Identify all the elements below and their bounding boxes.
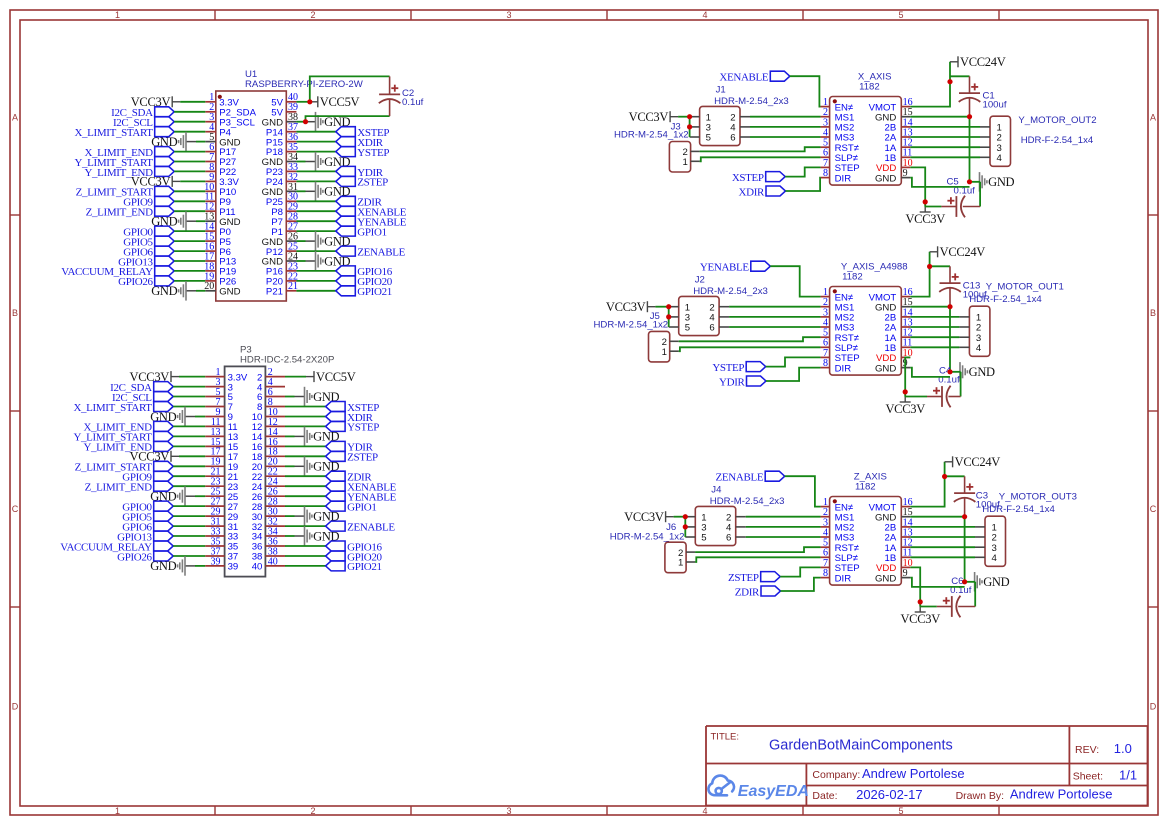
svg-text:4: 4 [997, 153, 1003, 164]
svg-text:C: C [12, 504, 19, 514]
svg-text:HDR-F-2.54_1x4: HDR-F-2.54_1x4 [969, 294, 1042, 305]
svg-text:HDR-M-2.54_2x3: HDR-M-2.54_2x3 [710, 496, 785, 507]
svg-text:Date:: Date: [812, 790, 837, 802]
svg-text:1182: 1182 [842, 272, 863, 283]
svg-text:3: 3 [506, 10, 511, 20]
svg-text:VCC24V: VCC24V [955, 455, 1001, 469]
svg-text:5: 5 [898, 10, 903, 20]
svg-text:GPIO26: GPIO26 [118, 276, 153, 288]
svg-text:VCC3V: VCC3V [624, 510, 664, 524]
svg-text:GPIO21: GPIO21 [357, 286, 392, 298]
svg-text:DIR: DIR [835, 363, 852, 374]
svg-text:B: B [12, 308, 18, 318]
svg-text:GND: GND [219, 287, 240, 298]
svg-text:5: 5 [706, 133, 711, 144]
svg-text:YSTEP: YSTEP [347, 422, 379, 434]
svg-text:REV:: REV: [1075, 744, 1099, 756]
svg-text:2: 2 [310, 10, 315, 20]
svg-text:X_LIMIT_START: X_LIMIT_START [74, 127, 153, 139]
svg-text:GND: GND [151, 284, 177, 298]
svg-text:Y_MOTOR_OUT3: Y_MOTOR_OUT3 [999, 492, 1077, 503]
svg-text:P21: P21 [266, 287, 283, 298]
svg-text:A: A [12, 113, 18, 123]
svg-text:VCC24V: VCC24V [940, 245, 986, 259]
svg-text:HDR-M-2.54_2x3: HDR-M-2.54_2x3 [693, 286, 768, 297]
svg-text:GND: GND [875, 573, 896, 584]
svg-text:5: 5 [685, 323, 690, 334]
svg-text:Y_MOTOR_OUT2: Y_MOTOR_OUT2 [1018, 115, 1096, 126]
svg-text:D: D [1150, 702, 1157, 712]
svg-text:ZENABLE: ZENABLE [347, 521, 395, 533]
svg-text:1182: 1182 [859, 82, 880, 93]
svg-text:39: 39 [211, 556, 221, 567]
svg-text:ZDIR: ZDIR [735, 586, 760, 598]
svg-text:VCC3V: VCC3V [905, 212, 945, 226]
svg-text:GPIO1: GPIO1 [357, 226, 386, 238]
svg-text:GND: GND [969, 365, 995, 379]
svg-text:HDR-F-2.54_1x4: HDR-F-2.54_1x4 [982, 504, 1055, 515]
svg-text:HDR-M-2.54_1x2: HDR-M-2.54_1x2 [610, 531, 685, 542]
svg-text:GardenBotMainComponents: GardenBotMainComponents [769, 738, 953, 754]
svg-text:XENABLE: XENABLE [719, 72, 769, 84]
svg-text:GND: GND [988, 175, 1014, 189]
svg-text:1182: 1182 [855, 482, 876, 493]
svg-text:VCC3V: VCC3V [606, 300, 646, 314]
svg-text:1: 1 [115, 806, 120, 816]
svg-text:20: 20 [204, 281, 214, 292]
svg-text:GND: GND [875, 363, 896, 374]
svg-text:VCC3V: VCC3V [885, 402, 925, 416]
svg-text:TITLE:: TITLE: [711, 732, 740, 743]
svg-text:GND: GND [150, 559, 176, 573]
svg-text:B: B [1150, 308, 1156, 318]
svg-text:YSTEP: YSTEP [712, 362, 744, 374]
svg-text:4: 4 [992, 553, 998, 564]
svg-text:Andrew Portolese: Andrew Portolese [1010, 787, 1113, 802]
svg-text:HDR-M-2.54_2x3: HDR-M-2.54_2x3 [714, 96, 789, 107]
svg-text:ZSTEP: ZSTEP [347, 452, 378, 464]
svg-text:J1: J1 [716, 85, 726, 96]
svg-text:ZSTEP: ZSTEP [357, 177, 388, 189]
svg-text:2: 2 [310, 806, 315, 816]
svg-text:EasyEDA: EasyEDA [738, 783, 809, 800]
svg-text:D: D [12, 702, 19, 712]
svg-text:4: 4 [702, 806, 707, 816]
svg-text:0.1uf: 0.1uf [402, 97, 424, 108]
svg-text:VCC24V: VCC24V [960, 55, 1006, 69]
svg-text:J2: J2 [695, 275, 705, 286]
svg-text:YSTEP: YSTEP [357, 147, 389, 159]
svg-text:1/1: 1/1 [1119, 768, 1137, 783]
svg-text:6: 6 [730, 133, 735, 144]
svg-text:GND: GND [983, 575, 1009, 589]
svg-text:ZENABLE: ZENABLE [357, 246, 405, 258]
svg-text:VCC3V: VCC3V [900, 612, 940, 626]
svg-text:DIR: DIR [835, 573, 852, 584]
svg-text:XSTEP: XSTEP [732, 172, 764, 184]
svg-text:HDR-F-2.54_1x4: HDR-F-2.54_1x4 [1021, 135, 1094, 146]
svg-text:1.0: 1.0 [1114, 741, 1132, 756]
svg-text:2026-02-17: 2026-02-17 [856, 787, 923, 802]
svg-text:C: C [1150, 504, 1157, 514]
svg-text:DIR: DIR [835, 173, 852, 184]
svg-text:A: A [1150, 113, 1156, 123]
svg-text:9: 9 [903, 168, 908, 179]
svg-text:Company:: Company: [812, 769, 860, 781]
svg-text:8: 8 [823, 168, 828, 179]
svg-text:Z_LIMIT_END: Z_LIMIT_END [85, 482, 152, 494]
svg-text:1: 1 [678, 558, 683, 569]
svg-text:HDR-M-2.54_1x2: HDR-M-2.54_1x2 [594, 319, 669, 330]
svg-text:Sheet:: Sheet: [1073, 771, 1103, 783]
svg-text:HDR-M-2.54_1x2: HDR-M-2.54_1x2 [614, 130, 689, 141]
svg-text:1: 1 [115, 10, 120, 20]
svg-text:1: 1 [683, 157, 688, 168]
svg-text:9: 9 [903, 568, 908, 579]
svg-text:5: 5 [701, 533, 706, 544]
svg-text:Z_LIMIT_END: Z_LIMIT_END [86, 207, 153, 219]
svg-text:Drawn By:: Drawn By: [956, 790, 1004, 802]
svg-text:4: 4 [976, 343, 982, 354]
svg-text:8: 8 [823, 358, 828, 369]
svg-text:40: 40 [252, 562, 263, 573]
svg-text:XDIR: XDIR [739, 186, 766, 198]
svg-text:5: 5 [898, 806, 903, 816]
svg-text:X_LIMIT_START: X_LIMIT_START [73, 402, 152, 414]
svg-text:VCC3V: VCC3V [629, 110, 669, 124]
svg-text:6: 6 [709, 323, 714, 334]
svg-text:40: 40 [268, 556, 278, 567]
svg-text:39: 39 [228, 562, 239, 573]
svg-text:3: 3 [506, 806, 511, 816]
svg-text:GPIO1: GPIO1 [347, 501, 376, 513]
svg-text:100uf: 100uf [983, 100, 1007, 111]
svg-text:Andrew Portolese: Andrew Portolese [862, 766, 965, 781]
svg-text:8: 8 [823, 568, 828, 579]
svg-text:ZSTEP: ZSTEP [728, 572, 759, 584]
svg-text:VCC5V: VCC5V [316, 370, 356, 384]
svg-text:6: 6 [726, 533, 731, 544]
svg-text:GPIO21: GPIO21 [347, 561, 382, 573]
svg-text:Y_MOTOR_OUT1: Y_MOTOR_OUT1 [986, 282, 1064, 293]
svg-text:GPIO26: GPIO26 [117, 551, 152, 563]
svg-text:YDIR: YDIR [719, 376, 746, 388]
svg-text:RASPBERRY-PI-ZERO-2W: RASPBERRY-PI-ZERO-2W [245, 79, 364, 90]
svg-text:ZENABLE: ZENABLE [716, 472, 764, 484]
svg-text:HDR-IDC-2.54-2X20P: HDR-IDC-2.54-2X20P [240, 355, 334, 366]
svg-text:VCC5V: VCC5V [320, 95, 360, 109]
svg-text:YENABLE: YENABLE [700, 262, 750, 274]
svg-text:J4: J4 [711, 485, 722, 496]
svg-text:GND: GND [875, 173, 896, 184]
svg-text:1: 1 [662, 347, 667, 358]
svg-text:4: 4 [702, 10, 707, 20]
